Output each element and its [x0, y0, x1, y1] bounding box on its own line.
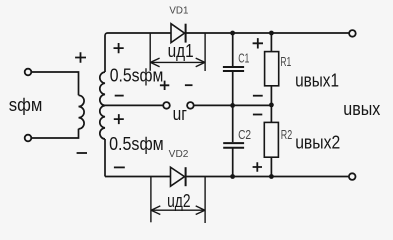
svg-text:uд1: uд1 [168, 41, 194, 61]
svg-text:C1: C1 [238, 52, 249, 66]
svg-text:uвых1: uвых1 [295, 71, 339, 91]
svg-text:uвых: uвых [343, 99, 380, 119]
svg-text:uд2: uд2 [167, 191, 190, 211]
svg-text:VD2: VD2 [169, 149, 189, 160]
svg-text:sфм: sфм [9, 95, 43, 115]
svg-text:R1: R1 [280, 55, 291, 69]
svg-text:0.5sфм: 0.5sфм [109, 134, 164, 154]
svg-text:uвых2: uвых2 [295, 132, 340, 152]
svg-text:R2: R2 [281, 128, 292, 142]
svg-text:VD1: VD1 [169, 6, 188, 17]
svg-text:0.5sфм: 0.5sфм [110, 66, 164, 86]
svg-text:C2: C2 [238, 128, 251, 142]
svg-text:uг: uг [173, 104, 188, 124]
